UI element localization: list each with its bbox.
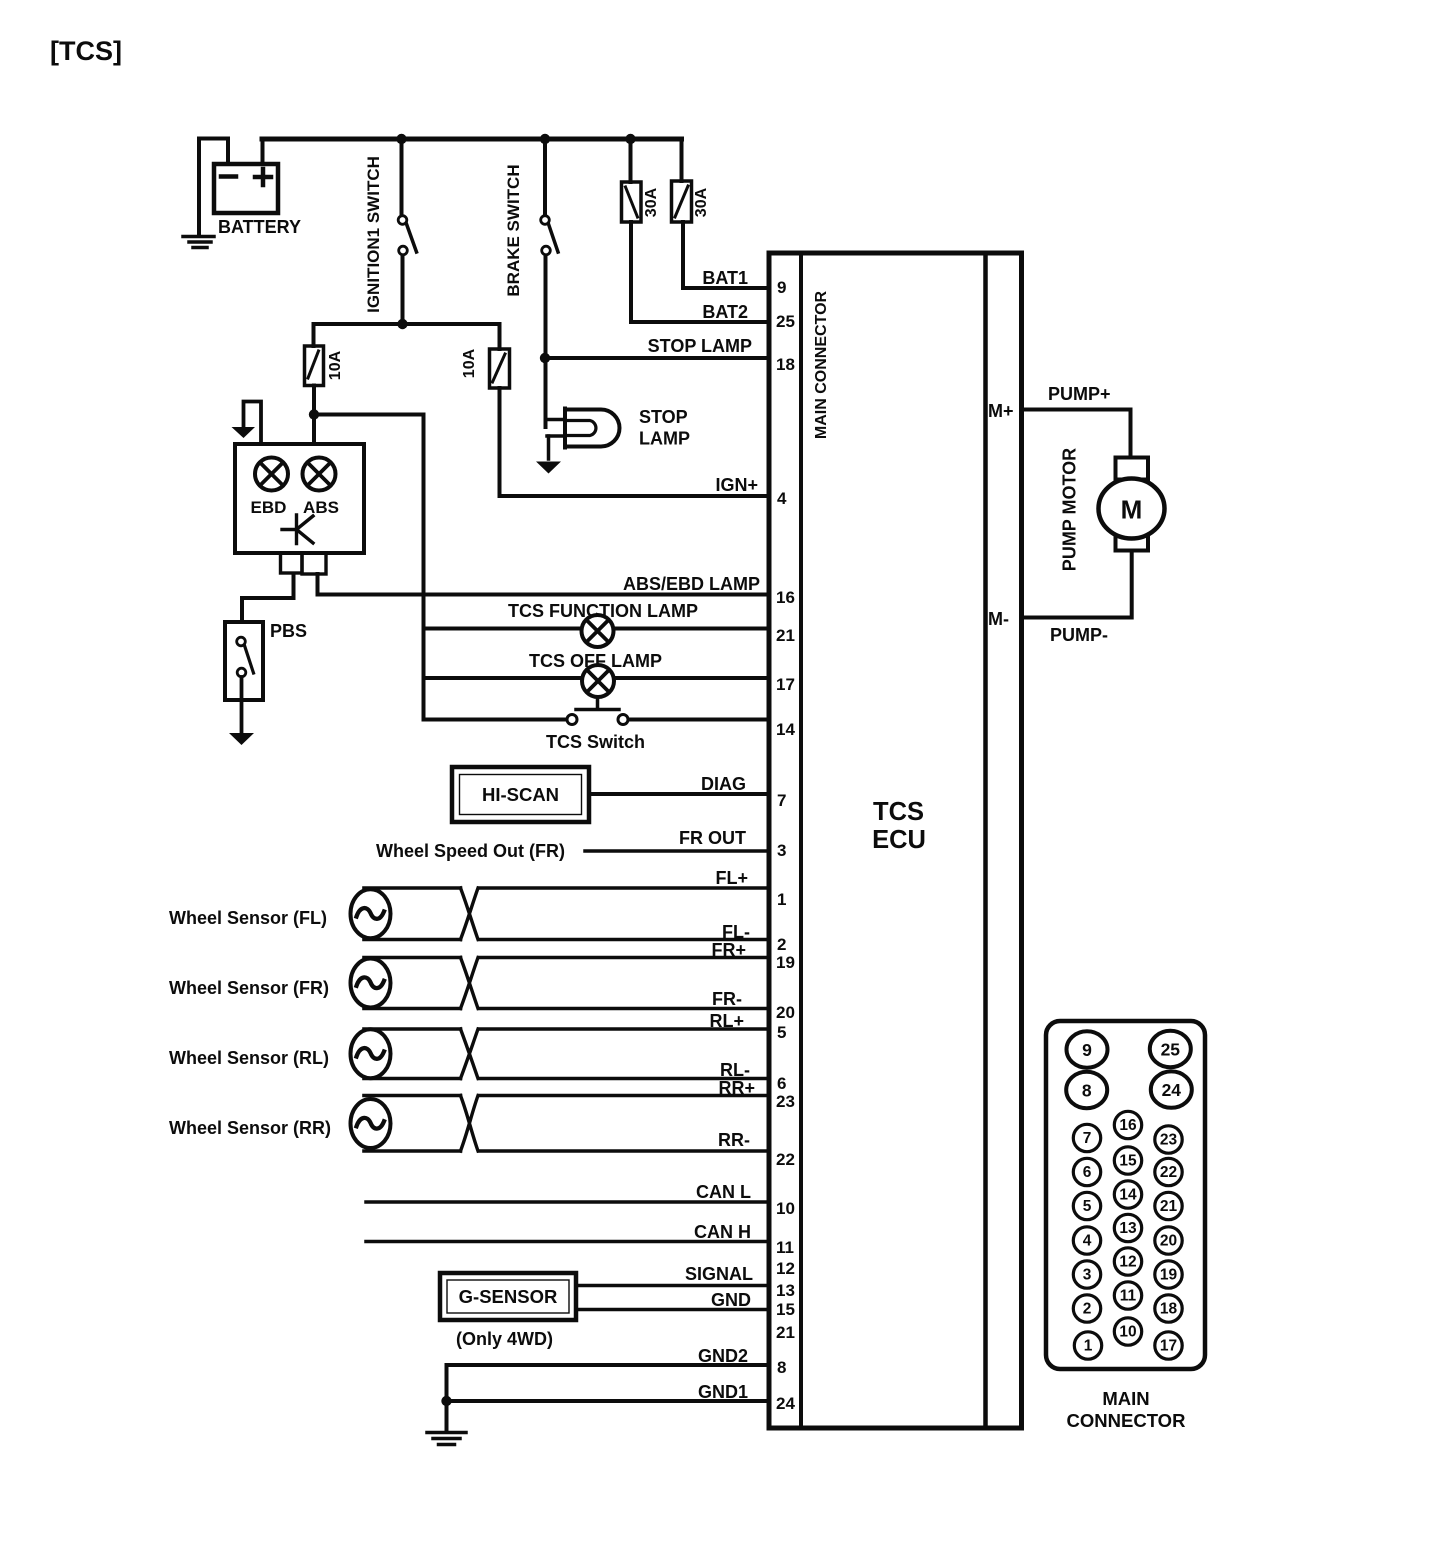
wire lamp bus vertical <box>422 415 426 720</box>
svg-text:PUMP-: PUMP- <box>1050 625 1108 645</box>
lamp TCS OFF <box>582 665 614 697</box>
connector terminals under cluster <box>281 553 327 574</box>
svg-text:FR+: FR+ <box>711 940 746 960</box>
svg-text:M+: M+ <box>988 401 1014 421</box>
svg-text:M-: M- <box>988 609 1009 629</box>
svg-text:11: 11 <box>1120 1288 1137 1305</box>
svg-text:7: 7 <box>1083 1130 1092 1147</box>
ignition switch SW1 <box>398 139 416 324</box>
svg-text:1: 1 <box>777 890 786 909</box>
fuse F1 30A <box>622 139 642 322</box>
label Wheel Sensor (FL) <box>169 908 327 928</box>
small pins right column <box>1155 1126 1182 1359</box>
svg-text:12: 12 <box>1119 1254 1136 1271</box>
label BATTERY <box>218 217 301 237</box>
svg-text:10: 10 <box>1119 1324 1136 1341</box>
pin 5 <box>1073 1192 1100 1219</box>
pin 4 <box>1073 1227 1100 1254</box>
svg-text:CAN L: CAN L <box>696 1182 751 1202</box>
pin 17 <box>1155 1332 1182 1359</box>
svg-text:16: 16 <box>1119 1117 1137 1134</box>
TCS switch SW3 and wire to pin 14 <box>424 698 770 725</box>
svg-text:GND1: GND1 <box>698 1382 748 1402</box>
label TCS OFF LAMP <box>529 651 662 671</box>
svg-text:BAT1: BAT1 <box>702 268 748 288</box>
wire CAN H to pin 11 <box>366 1240 769 1244</box>
battery <box>199 139 278 236</box>
label IGNITION1 SWITCH <box>364 156 383 313</box>
svg-text:18: 18 <box>776 355 795 374</box>
label 10A F3 <box>327 350 344 380</box>
label EBD <box>251 498 287 517</box>
label M- <box>988 609 1009 629</box>
svg-text:30A: 30A <box>693 187 710 217</box>
label 30A F1 <box>643 187 660 217</box>
svg-text:Wheel Sensor (FR): Wheel Sensor (FR) <box>169 978 329 998</box>
svg-text:LAMP: LAMP <box>639 429 690 449</box>
pin 8 big <box>1066 1072 1107 1108</box>
svg-text:19: 19 <box>1160 1267 1178 1284</box>
svg-text:9: 9 <box>1082 1040 1092 1060</box>
wire DIAG to pin 7 <box>589 792 769 796</box>
label G-SENSOR <box>459 1286 558 1307</box>
label Wheel Sensor (RR) <box>169 1118 331 1138</box>
svg-text:11: 11 <box>776 1238 794 1257</box>
label MAIN CONNECTOR vertical <box>813 290 830 439</box>
wheel sensor (RR) <box>351 1096 770 1152</box>
wire FR OUT to pin 3 <box>585 849 769 853</box>
svg-text:ABS: ABS <box>303 498 339 517</box>
small pins left column <box>1073 1124 1101 1359</box>
wire SIGNAL to pin 13 <box>576 1284 769 1288</box>
svg-text:8: 8 <box>777 1358 786 1377</box>
svg-text:4: 4 <box>777 489 787 508</box>
svg-text:25: 25 <box>776 312 795 331</box>
pin 24 big <box>1151 1071 1192 1107</box>
svg-text:2: 2 <box>777 935 786 954</box>
svg-text:17: 17 <box>776 675 795 694</box>
pin 25 big <box>1150 1031 1191 1067</box>
wire name labels <box>648 268 758 1402</box>
svg-text:MAIN CONNECTOR: MAIN CONNECTOR <box>813 290 830 439</box>
TCS ECU box U1 <box>769 253 1022 1428</box>
pin 1 <box>1074 1332 1101 1359</box>
svg-text:22: 22 <box>776 1150 795 1169</box>
label PUMP+ <box>1048 384 1111 404</box>
svg-text:16: 16 <box>776 588 795 607</box>
wire GND to pin 15 <box>576 1308 769 1312</box>
title [TCS] <box>50 36 122 66</box>
pin 19 <box>1155 1261 1182 1288</box>
fuse F3 10A <box>305 324 324 415</box>
svg-text:14: 14 <box>1119 1187 1137 1204</box>
svg-text:(Only 4WD): (Only 4WD) <box>456 1329 553 1349</box>
svg-text:IGNITION1 SWITCH: IGNITION1 SWITCH <box>364 156 383 313</box>
svg-text:TCS: TCS <box>873 798 924 826</box>
PBS switch <box>225 622 263 733</box>
wire ABS/EBD lamp to pin 16 <box>318 574 770 595</box>
label PUMP- <box>1050 625 1108 645</box>
wire warning lamp feed <box>314 415 424 445</box>
lamp ABS <box>303 458 336 491</box>
label (Only 4WD) <box>456 1329 553 1349</box>
wire top power rail <box>262 137 682 142</box>
wire IGN+ to pin 4 <box>500 494 770 498</box>
svg-text:15: 15 <box>1119 1153 1137 1170</box>
svg-text:30A: 30A <box>643 187 660 217</box>
pin 20 <box>1155 1227 1182 1254</box>
label TCS Switch <box>546 732 645 752</box>
svg-text:RR-: RR- <box>718 1130 750 1150</box>
svg-text:FL+: FL+ <box>715 868 748 888</box>
svg-text:STOP: STOP <box>639 407 688 427</box>
label M motor <box>1121 495 1143 525</box>
label HI-SCAN <box>482 784 559 805</box>
label 30A F2 <box>693 187 710 217</box>
wire PUMP+ <box>1022 410 1131 458</box>
svg-text:STOP LAMP: STOP LAMP <box>648 336 752 356</box>
label Wheel Sensor (RL) <box>169 1048 329 1068</box>
wheel sensor (FR) <box>351 958 770 1009</box>
small pins middle column <box>1114 1111 1141 1345</box>
stop lamp bulb L1 <box>547 409 620 460</box>
svg-text:FR-: FR- <box>712 989 742 1009</box>
ground arrow cluster <box>232 402 262 445</box>
label TCS FUNCTION LAMP <box>508 601 698 621</box>
pin 3 <box>1073 1261 1100 1288</box>
svg-text:5: 5 <box>1083 1198 1092 1215</box>
svg-text:15: 15 <box>776 1300 795 1319</box>
svg-text:GND2: GND2 <box>698 1346 748 1366</box>
svg-text:Wheel Speed Out (FR): Wheel Speed Out (FR) <box>376 841 565 861</box>
label TCS ECU <box>872 798 926 854</box>
lamp TCS FUNCTION <box>582 615 614 647</box>
svg-text:HI-SCAN: HI-SCAN <box>482 784 559 805</box>
HI-SCAN tool U2 <box>452 767 589 822</box>
svg-text:EBD: EBD <box>251 498 287 517</box>
svg-text:IGN+: IGN+ <box>715 475 758 495</box>
wire STOP LAMP to pin 18 <box>545 356 769 360</box>
diode symbol <box>282 515 313 544</box>
svg-text:6: 6 <box>777 1074 786 1093</box>
svg-text:10A: 10A <box>327 350 344 380</box>
svg-text:13: 13 <box>776 1281 795 1300</box>
label Wheel Speed Out (FR) <box>376 841 565 861</box>
pin 7 <box>1073 1124 1100 1151</box>
svg-text:3: 3 <box>1083 1267 1092 1284</box>
svg-text:BAT2: BAT2 <box>702 302 748 322</box>
pin 16 <box>1114 1111 1141 1138</box>
svg-text:ECU: ECU <box>872 826 926 854</box>
svg-text:23: 23 <box>776 1092 795 1111</box>
wire cluster left pin to PBS <box>242 574 294 622</box>
lamp EBD <box>255 458 288 491</box>
label BRAKE SWITCH <box>504 164 523 296</box>
fuse F4 10A <box>490 324 510 496</box>
warning lamp cluster box <box>235 444 364 553</box>
svg-text:TCS Switch: TCS Switch <box>546 732 645 752</box>
pin 11 <box>1114 1282 1141 1309</box>
svg-text:24: 24 <box>776 1394 795 1413</box>
ground G1 <box>427 1433 466 1445</box>
wire TCS function lamp to pin 21 <box>424 627 770 631</box>
svg-text:3: 3 <box>777 841 786 860</box>
label STOP LAMP bulb <box>639 407 690 449</box>
pin 22 <box>1155 1158 1182 1185</box>
wire BAT2 to pin 25 <box>631 320 769 324</box>
svg-text:TCS OFF LAMP: TCS OFF LAMP <box>529 651 662 671</box>
ground battery <box>183 237 214 248</box>
label ABS/EBD LAMP <box>623 574 760 594</box>
pin numbers left strip <box>776 278 795 1413</box>
pin 12 <box>1114 1248 1141 1275</box>
pin 6 <box>1073 1158 1100 1185</box>
main connector J1 <box>1046 1021 1205 1369</box>
label 10A F4 <box>461 348 478 378</box>
svg-text:G-SENSOR: G-SENSOR <box>459 1286 558 1307</box>
pin 23 <box>1155 1126 1182 1153</box>
label Wheel Sensor (FR) <box>169 978 329 998</box>
wire TCS off lamp to pin 17 <box>424 676 770 680</box>
fuse F2 30A <box>672 139 692 288</box>
svg-text:Wheel Sensor (FL): Wheel Sensor (FL) <box>169 908 327 928</box>
svg-text:PUMP MOTOR: PUMP MOTOR <box>1060 448 1080 571</box>
svg-text:21: 21 <box>776 626 795 645</box>
svg-text:21: 21 <box>776 1323 795 1342</box>
svg-text:4: 4 <box>1083 1233 1092 1250</box>
brake switch SW2 <box>541 139 558 427</box>
wheel sensor (FL) <box>351 888 770 940</box>
pin 18 <box>1155 1295 1182 1322</box>
svg-text:ABS/EBD LAMP: ABS/EBD LAMP <box>623 574 760 594</box>
svg-text:GND: GND <box>711 1290 751 1310</box>
svg-text:FL-: FL- <box>722 922 750 942</box>
svg-text:7: 7 <box>777 791 786 810</box>
label MAIN CONNECTOR bottom <box>1067 1388 1186 1431</box>
svg-text:19: 19 <box>776 953 795 972</box>
svg-text:PBS: PBS <box>270 621 307 641</box>
svg-text:FR OUT: FR OUT <box>679 828 746 848</box>
svg-text:DIAG: DIAG <box>701 774 746 794</box>
svg-text:MAIN: MAIN <box>1102 1388 1149 1409</box>
wheel sensor (RL) <box>351 1029 770 1079</box>
pin 13 <box>1114 1214 1141 1241</box>
pin 21 <box>1155 1192 1182 1219</box>
pin 10 <box>1114 1318 1141 1345</box>
label PBS <box>270 621 307 641</box>
svg-text:BRAKE SWITCH: BRAKE SWITCH <box>504 164 523 296</box>
svg-text:TCS FUNCTION LAMP: TCS FUNCTION LAMP <box>508 601 698 621</box>
svg-text:12: 12 <box>776 1259 795 1278</box>
svg-text:10A: 10A <box>461 348 478 378</box>
svg-text:23: 23 <box>1160 1132 1178 1149</box>
svg-text:M: M <box>1121 495 1143 525</box>
ground PBS <box>229 733 254 745</box>
svg-text:21: 21 <box>1160 1198 1178 1215</box>
svg-text:17: 17 <box>1160 1338 1177 1355</box>
wire GND1 to pin 24 <box>447 1399 770 1403</box>
wire CAN L to pin 10 <box>366 1200 769 1204</box>
svg-text:10: 10 <box>776 1199 795 1218</box>
wire BAT1 to pin 9 <box>683 286 769 290</box>
label PUMP MOTOR vertical <box>1060 448 1080 571</box>
pump motor M1 <box>1099 458 1165 551</box>
svg-text:20: 20 <box>1160 1233 1177 1250</box>
G-SENSOR U3 <box>440 1273 576 1320</box>
svg-text:CAN H: CAN H <box>694 1222 751 1242</box>
wire PUMP- <box>1022 551 1132 618</box>
pin 14 <box>1114 1181 1141 1208</box>
svg-text:BATTERY: BATTERY <box>218 217 301 237</box>
pin 9 big <box>1067 1031 1108 1067</box>
ground stop lamp <box>536 462 561 474</box>
svg-text:6: 6 <box>1083 1164 1092 1181</box>
svg-text:20: 20 <box>776 1003 795 1022</box>
label ABS <box>303 498 339 517</box>
svg-text:CONNECTOR: CONNECTOR <box>1067 1410 1186 1431</box>
svg-text:22: 22 <box>1160 1164 1177 1181</box>
wire ignition fuse rail <box>314 322 500 326</box>
svg-text:9: 9 <box>777 278 786 297</box>
svg-text:8: 8 <box>1082 1081 1092 1101</box>
pin 15 <box>1114 1147 1141 1174</box>
svg-text:25: 25 <box>1161 1040 1181 1060</box>
svg-text:13: 13 <box>1119 1220 1137 1237</box>
svg-text:SIGNAL: SIGNAL <box>685 1264 753 1284</box>
svg-text:1: 1 <box>1084 1338 1093 1355</box>
svg-text:2: 2 <box>1083 1301 1092 1318</box>
label M+ <box>988 401 1014 421</box>
svg-text:14: 14 <box>776 720 795 739</box>
node junction dots <box>309 134 636 1406</box>
svg-text:18: 18 <box>1160 1301 1178 1318</box>
wire GND2 to pin 8 <box>447 1363 769 1367</box>
svg-text:5: 5 <box>777 1023 786 1042</box>
pin 2 <box>1073 1295 1100 1322</box>
svg-text:[TCS]: [TCS] <box>50 36 122 66</box>
svg-text:RL+: RL+ <box>709 1011 744 1031</box>
svg-text:Wheel Sensor (RL): Wheel Sensor (RL) <box>169 1048 329 1068</box>
wire ground drop <box>445 1365 449 1431</box>
svg-text:PUMP+: PUMP+ <box>1048 384 1111 404</box>
svg-text:Wheel Sensor (RR): Wheel Sensor (RR) <box>169 1118 331 1138</box>
svg-text:24: 24 <box>1162 1080 1182 1100</box>
svg-text:RL-: RL- <box>720 1060 750 1080</box>
svg-text:RR+: RR+ <box>718 1078 755 1098</box>
